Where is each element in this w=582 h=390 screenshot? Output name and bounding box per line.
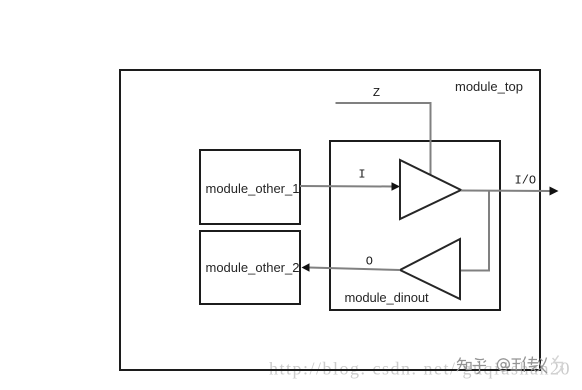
at-sign @ <box>497 359 509 371</box>
svg-text:http://blog. csdn. net/ guqius: http://blog. csdn. net/ guqiushan20 <box>269 359 571 379</box>
svg-text:I/O: I/O <box>515 174 537 188</box>
module_other_1 box <box>200 150 300 224</box>
wire Z <box>336 103 431 176</box>
watermark zhihu 知乎 @王传义 (drawn strokes, grader has no CJK font) <box>457 357 547 374</box>
tri-state buffer (output driver) <box>400 160 461 219</box>
wire feedback branch <box>461 191 489 271</box>
svg-text:Z: Z <box>373 86 380 100</box>
svg-text:I: I <box>358 168 365 182</box>
wang 王 <box>511 359 523 370</box>
arrowhead I/O <box>550 187 559 196</box>
input buffer triangle <box>400 239 460 299</box>
watermark ghost glyph 为 <box>553 356 564 374</box>
arrowhead I <box>392 182 401 190</box>
module_dinout box <box>330 141 500 310</box>
module_top outer box <box>120 70 540 370</box>
svg-text:module_other_2: module_other_2 <box>206 260 300 275</box>
svg-text:O: O <box>366 255 373 269</box>
module_other_2 box <box>200 231 300 304</box>
chuan 传 <box>523 357 538 373</box>
wire I/O <box>461 190 550 193</box>
svg-text:module_top: module_top <box>455 79 523 94</box>
hu 乎 <box>473 359 487 374</box>
arrowhead O <box>302 263 310 271</box>
yi 义 <box>538 358 548 374</box>
wire O <box>309 268 400 271</box>
wire I <box>300 185 393 188</box>
svg-text:module_dinout: module_dinout <box>345 290 429 305</box>
zhi 知 <box>457 358 471 372</box>
svg-text:module_other_1: module_other_1 <box>206 181 300 196</box>
